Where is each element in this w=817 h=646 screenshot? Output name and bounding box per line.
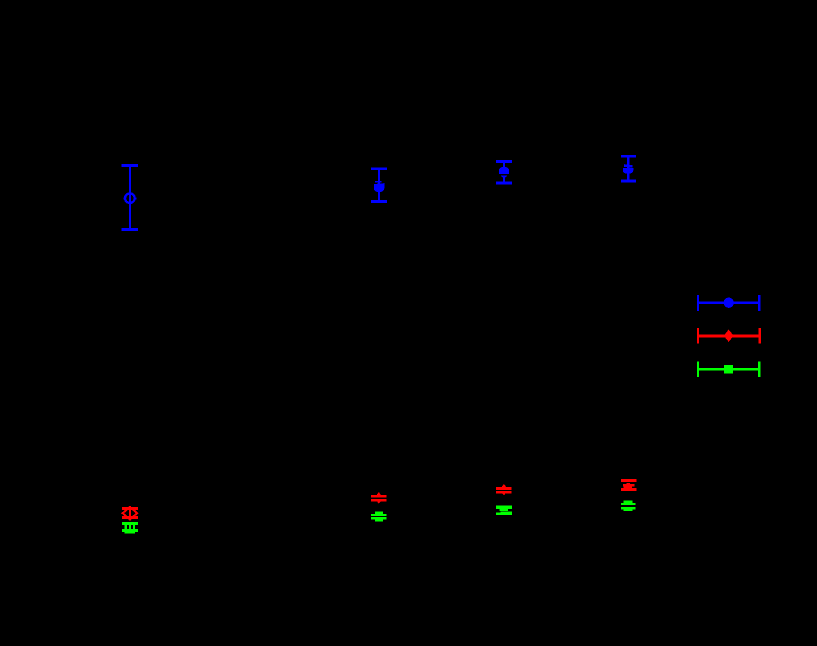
green series point 3 error bar: [496, 505, 512, 515]
red series point 2 error bar: [371, 495, 387, 502]
blue series point 3 lower marker fragment: [501, 171, 507, 177]
red series point 4 error bar: [621, 479, 636, 491]
legend entry 1 filled circle marker: [724, 298, 734, 308]
legend entry 3 green error bar sample: [697, 361, 760, 376]
green series point 2 error bar: [371, 514, 387, 520]
red series point 1 open diamond marker: [123, 507, 138, 519]
legend entry 2 filled diamond marker: [724, 330, 734, 342]
blue series point 4 upper band marker: [624, 164, 633, 168]
red series point 1 error bar: [122, 506, 138, 521]
blue series point 1 error bar: [122, 164, 138, 231]
green series point 1 error bar: [122, 522, 138, 532]
green series point 4 error bar: [621, 500, 636, 511]
blue series point 3 filled marker: [499, 167, 509, 174]
wire: [129, 166, 131, 230]
blue series point 4 error bar: [621, 155, 636, 183]
red series point 2 filled diamond marker: [374, 492, 383, 504]
blue series point 2 error bar: [371, 167, 387, 203]
blue series point 4 filled marker: [623, 168, 633, 174]
blue series point 1 open circle marker: [125, 193, 135, 203]
legend entry 1 blue error bar sample: [697, 295, 760, 311]
blue series point 2 filled marker: [374, 183, 384, 192]
legend entry 2 red error bar sample: [697, 328, 761, 344]
red series point 3 filled diamond marker: [500, 484, 509, 496]
green series point 1 open square marker: [126, 523, 134, 532]
red series point 3 error bar: [496, 487, 512, 494]
green series point 2 open square marker: [376, 513, 382, 521]
legend entry 3 filled square marker: [724, 365, 733, 374]
blue series point 3 error bar: [496, 160, 512, 185]
